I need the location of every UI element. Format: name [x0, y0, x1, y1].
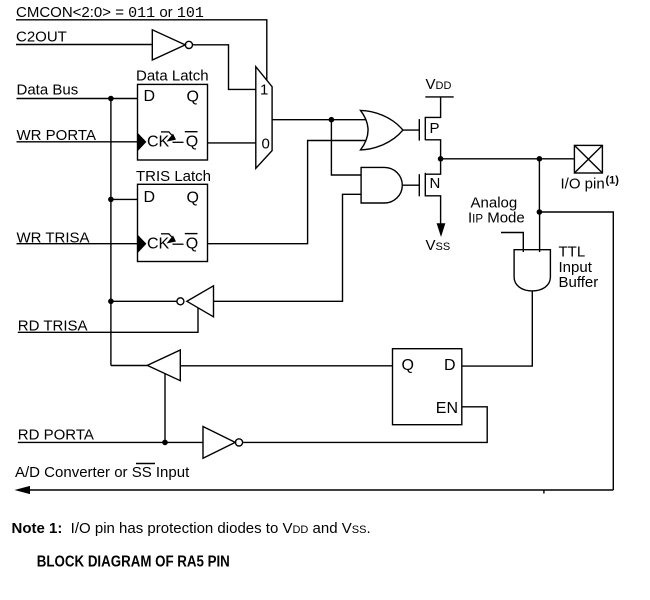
- node I/O wire junction: [537, 156, 543, 162]
- wire driver node to I/O pin: [441, 158, 575, 160]
- wire RD PORTA line: [18, 441, 203, 443]
- svg-text:WR PORTA: WR PORTA: [17, 127, 96, 144]
- wire OR output to P gate: [403, 129, 419, 131]
- svg-text:D: D: [144, 88, 156, 105]
- power VDD bar: [425, 96, 453, 98]
- wire data latch Qbar to mux input 0: [208, 142, 257, 144]
- svg-text:1: 1: [260, 81, 268, 98]
- svg-text:(1): (1): [606, 175, 620, 187]
- svg-text:Data Latch: Data Latch: [136, 68, 209, 85]
- node data bus junction: [108, 96, 114, 102]
- wire TRIS latch Qbar to OR gate lower input: [208, 141, 367, 244]
- arrow VSS down arrowhead: [437, 223, 446, 237]
- wire A/D converter line: [22, 489, 613, 491]
- wire mux output to OR gate upper input: [272, 119, 366, 121]
- svg-text:BLOCK DIAGRAM OF RA5 PIN: BLOCK DIAGRAM OF RA5 PIN: [37, 554, 230, 571]
- svg-text:D: D: [444, 357, 456, 374]
- node mux output junction: [329, 117, 335, 123]
- wire rail to TRIS latch D: [111, 198, 138, 200]
- wire RD TRISA enable: [18, 308, 198, 333]
- node TRIS D junction: [108, 197, 114, 203]
- wire analog node to right bus: [539, 212, 613, 490]
- node RD TRISA junction: [108, 299, 114, 305]
- svg-text:Data Bus: Data Bus: [17, 82, 79, 99]
- wire node to AND gate upper input: [331, 120, 361, 175]
- svg-text:P: P: [430, 120, 440, 137]
- wire SS overline: [136, 463, 155, 465]
- svg-text:Q: Q: [187, 190, 199, 207]
- svg-text:Buffer: Buffer: [559, 274, 599, 291]
- latch TRIS Latch box: [138, 184, 208, 261]
- latch Data Latch box: [138, 84, 208, 160]
- wire C2OUT inverter output to mux input 1: [193, 45, 257, 90]
- svg-text:0: 0: [262, 136, 270, 153]
- wire TTL buffer output to RD latch D: [462, 291, 533, 366]
- clock symbol data latch: [161, 132, 184, 142]
- buffer U2 RD TRISA tri-state inverter (left pointing): [177, 286, 214, 317]
- svg-text:D: D: [144, 189, 156, 206]
- svg-text:CK: CK: [147, 134, 170, 151]
- wire Analog Input Mode stub: [501, 233, 523, 253]
- svg-text:Note 1: I/O pin has protectio: Note 1: I/O pin has protection diodes to…: [12, 520, 371, 537]
- wire read buffer enable to RD PORTA: [164, 374, 166, 442]
- clock triangle data latch: [138, 133, 147, 152]
- svg-text:A/D Converter or SS Input: A/D Converter or SS Input: [15, 464, 190, 481]
- svg-text:RD PORTA: RD PORTA: [18, 427, 94, 444]
- svg-text:Q: Q: [186, 235, 198, 252]
- arrow A/D line left arrowhead: [15, 486, 31, 494]
- buffer TTL input buffer: [514, 250, 550, 291]
- svg-text:I/O pin: I/O pin: [561, 176, 605, 193]
- wire node to TTL buffer right input: [539, 212, 541, 252]
- gate G2 AND: [361, 167, 402, 203]
- svg-text:CK: CK: [147, 235, 170, 252]
- I/O pin box with X: [574, 145, 602, 173]
- transistor Q1 P-MOSFET: [419, 97, 440, 159]
- transistor Q2 N-MOSFET: [419, 159, 440, 224]
- svg-text:TRIS Latch: TRIS Latch: [136, 168, 211, 185]
- svg-text:Q: Q: [186, 134, 198, 151]
- wire RD TRISA buffer output to rail: [111, 300, 177, 302]
- gate G1 OR: [361, 110, 403, 149]
- svg-text:Q: Q: [187, 89, 199, 106]
- wire read buffer output to rail: [111, 365, 147, 367]
- wire Data Bus to data latch D: [17, 98, 138, 100]
- wire I/O node down: [538, 159, 540, 212]
- wire AND output to N gate: [402, 184, 419, 186]
- svg-text:VSS: VSS: [426, 237, 451, 254]
- svg-text:RD TRISA: RD TRISA: [18, 318, 88, 335]
- wire AND gate lower input from TRIS read net: [214, 194, 361, 301]
- wire tick on A/D line: [543, 490, 545, 494]
- svg-text:EN: EN: [436, 400, 458, 417]
- svg-text:Q: Q: [402, 357, 414, 374]
- svg-text:N: N: [430, 175, 441, 192]
- wire WR TRISA to TRIS latch CK: [17, 243, 138, 245]
- wire C2OUT input: [16, 44, 152, 46]
- wire RD PORTA inverter output to RD latch EN: [243, 407, 487, 443]
- node driver output junction: [438, 156, 444, 162]
- wire RD latch Q to read buffer: [181, 365, 393, 367]
- svg-text:VDD: VDD: [426, 76, 452, 93]
- buffer U3 read buffer (left pointing): [147, 350, 180, 381]
- svg-text:WR TRISA: WR TRISA: [17, 230, 90, 247]
- clock symbol TRIS latch: [161, 234, 184, 244]
- clock triangle TRIS latch: [138, 235, 147, 254]
- op-amp U4 RD PORTA inverter: [203, 427, 243, 459]
- svg-text:C2OUT: C2OUT: [16, 29, 67, 46]
- wire data bus vertical rail: [110, 99, 112, 366]
- mux MUX1: [256, 67, 272, 169]
- latch RD latch box: [393, 349, 462, 425]
- svg-text:IIP Mode: IIP Mode: [468, 210, 525, 227]
- wire WR PORTA to data latch CK: [17, 141, 138, 143]
- op-amp U1 C2OUT inverter: [152, 30, 192, 60]
- svg-text:CMCON<2:0> = 011 or 101: CMCON<2:0> = 011 or 101: [16, 4, 204, 22]
- wire CMCON select line: [16, 20, 267, 81]
- node analog junction: [537, 209, 543, 215]
- node RD PORTA junction: [162, 440, 168, 446]
